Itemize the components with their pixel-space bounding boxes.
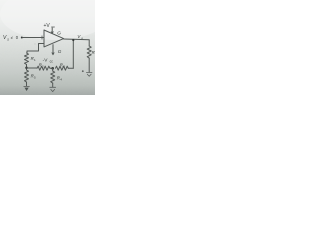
node Vi terminal — [21, 37, 23, 39]
wire op-amp output — [64, 38, 90, 41]
paper highlight — [0, 0, 110, 40]
label R1 — [31, 56, 36, 62]
resistor RL (right vertical) — [87, 46, 91, 58]
label R2 — [39, 63, 44, 69]
-Vcc label — [43, 58, 54, 64]
svg-text:G: G — [58, 49, 62, 54]
label R4 — [57, 75, 62, 81]
ground right — [86, 72, 92, 76]
node A junction dot — [25, 67, 28, 70]
resistor R4 (middle vertical) from node B — [52, 68, 54, 71]
label RL — [92, 50, 96, 55]
junction dot at feedback tap — [72, 39, 74, 41]
wire R2 to node B — [50, 67, 53, 69]
wire feedback vertical — [72, 40, 74, 68]
node Vi source label — [3, 35, 19, 42]
wire R3 to feedback corner — [68, 67, 73, 69]
svg-text:G: G — [57, 30, 61, 35]
ground middle — [50, 87, 56, 91]
svg-text:s: s — [7, 37, 9, 41]
wire RL to ground — [88, 58, 90, 72]
+Vcc supply arrow into op-amp top — [51, 28, 53, 33]
label R5 — [31, 74, 36, 80]
wire inverting input stub — [27, 44, 44, 54]
-Vcc supply arrow out of op-amp bottom — [52, 45, 54, 55]
resistor R3 (horizontal right) — [56, 66, 69, 70]
op-amp U1 triangle — [44, 30, 64, 47]
+ input tick — [41, 36, 43, 39]
wire node A to R2 — [27, 67, 38, 69]
wire output corner down — [88, 40, 90, 46]
resistor R1 (left upper, vertical) — [25, 53, 29, 65]
node B junction dot — [51, 67, 54, 70]
resistor R2 (horizontal left) — [37, 66, 50, 70]
wire R5 to ground — [26, 82, 28, 86]
wire R1 to node A — [26, 65, 28, 71]
svg-text:0: 0 — [16, 35, 19, 40]
paper speck — [82, 70, 84, 72]
svg-text:+V: +V — [44, 23, 51, 29]
ground left — [24, 85, 30, 87]
resistor R5 (left lower, vertical) — [25, 70, 29, 82]
wire Vi to op-amp + input — [23, 37, 44, 39]
+Vcc label — [44, 23, 56, 29]
svg-text:cc: cc — [50, 60, 54, 64]
wire R4 to ground — [52, 83, 54, 87]
svg-text:≠: ≠ — [11, 35, 14, 40]
label R3 — [60, 63, 65, 69]
svg-text:-V: -V — [43, 58, 49, 64]
label Vo — [77, 34, 83, 40]
svg-text:R: R — [92, 50, 95, 55]
